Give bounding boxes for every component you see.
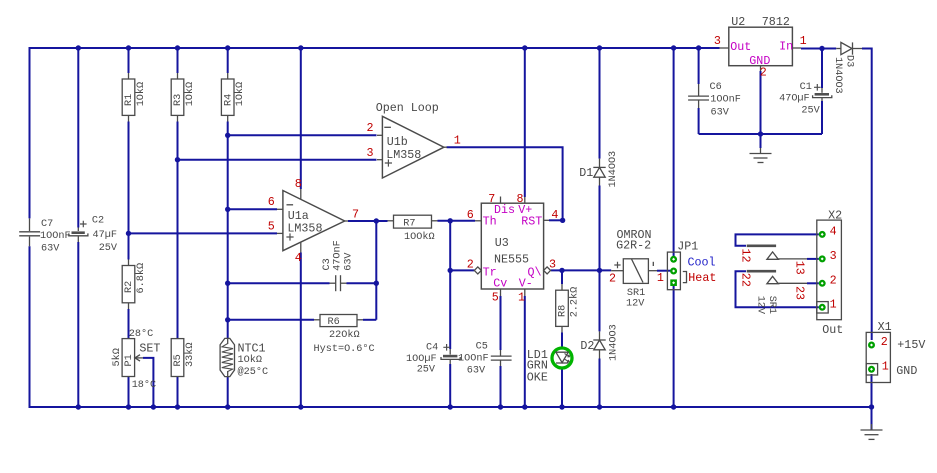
wire U1b pin3 net — [178, 159, 377, 161]
svg-text:6: 6 — [467, 208, 474, 222]
svg-text:3: 3 — [830, 249, 837, 263]
svg-text:13: 13 — [793, 261, 807, 275]
svg-text:X2: X2 — [828, 208, 842, 222]
svg-text:5: 5 — [268, 220, 275, 234]
svg-text:C3: C3 — [322, 258, 333, 270]
capacitor C3 — [322, 240, 355, 291]
svg-text:63V: 63V — [344, 252, 355, 271]
thermistor NTC1 — [220, 338, 268, 378]
wire U1a pin6 net — [228, 208, 277, 210]
wire R6 feedback net — [228, 319, 377, 321]
connector X1 — [866, 320, 891, 383]
svg-text:1OkΩ: 1OkΩ — [234, 82, 246, 106]
svg-text:In: In — [779, 40, 793, 54]
svg-text:1: 1 — [800, 34, 807, 48]
svg-text:R5: R5 — [173, 354, 184, 366]
svg-text:C7: C7 — [41, 219, 53, 230]
svg-text:Out: Out — [822, 323, 843, 337]
svg-text:@25°C: @25°C — [238, 366, 269, 378]
diode D2 — [580, 324, 619, 361]
svg-text:JP1: JP1 — [677, 239, 698, 253]
svg-text:RST: RST — [521, 215, 542, 229]
wire +12V top rail — [30, 47, 720, 49]
wire C3 feedback net — [228, 282, 377, 284]
svg-text:12: 12 — [739, 249, 753, 263]
svg-text:3: 3 — [714, 34, 721, 48]
potentiometer P1 — [111, 339, 143, 377]
wire contact A output to X2 pin3 — [807, 258, 819, 260]
svg-text:LM358: LM358 — [287, 222, 322, 236]
svg-text:1: 1 — [882, 359, 889, 373]
svg-text:SR1: SR1 — [766, 296, 777, 314]
svg-text:1N4OO3: 1N4OO3 — [608, 324, 619, 361]
wire U1b output to RST — [447, 147, 563, 220]
svg-text:R2: R2 — [124, 281, 135, 293]
svg-text:18°C: 18°C — [132, 379, 156, 391]
svg-text:U3: U3 — [495, 236, 509, 250]
LED LD1 — [527, 348, 572, 385]
capacitor C6 — [688, 82, 741, 119]
ground symbol bottom right — [861, 407, 883, 439]
voltage regulator U2 7812 — [720, 15, 802, 71]
svg-text:25V: 25V — [99, 243, 118, 254]
svg-text:2: 2 — [830, 273, 837, 287]
resistor R8 — [556, 284, 581, 333]
wire C6 branch — [698, 48, 700, 134]
svg-text:2: 2 — [467, 257, 474, 271]
wire Th to Tr and C4 branch — [450, 221, 474, 407]
svg-text:NE555: NE555 — [494, 253, 529, 267]
junction dots bottom rail — [76, 404, 875, 409]
svg-text:23: 23 — [793, 286, 807, 300]
wire R3 divider branch — [177, 48, 179, 407]
svg-text:1OOnF: 1OOnF — [710, 95, 741, 106]
svg-text:1OOnF: 1OOnF — [40, 231, 71, 242]
svg-text:Out: Out — [730, 40, 751, 54]
svg-text:R3: R3 — [173, 94, 184, 106]
relay contact A blade — [739, 245, 777, 263]
svg-text:R8: R8 — [558, 305, 569, 317]
svg-text:22OkΩ: 22OkΩ — [329, 329, 360, 341]
junction dots top rail — [76, 45, 825, 51]
resistor R1 — [122, 73, 147, 122]
relay contact A fixed point — [767, 252, 807, 275]
svg-text:Th: Th — [483, 215, 497, 229]
svg-text:7: 7 — [352, 207, 359, 221]
svg-text:4: 4 — [551, 208, 558, 222]
svg-text:3: 3 — [549, 257, 556, 271]
svg-text:GND: GND — [896, 364, 917, 378]
op-amp U1b — [377, 116, 447, 178]
relay contact B fixed point — [767, 276, 807, 300]
svg-text:5kΩ: 5kΩ — [111, 348, 123, 366]
svg-text:OKE: OKE — [527, 371, 548, 385]
svg-text:28°C: 28°C — [129, 328, 153, 340]
svg-text:1OOnF: 1OOnF — [458, 353, 489, 364]
svg-text:12V: 12V — [626, 299, 645, 310]
svg-text:12V: 12V — [755, 296, 766, 315]
timer U3 NE555 — [474, 197, 550, 297]
svg-text:4: 4 — [295, 251, 302, 265]
svg-text:2: 2 — [760, 65, 767, 79]
wire relay contact A to X2 pin4 — [736, 234, 819, 245]
resistor R6 — [314, 315, 363, 342]
wire contact B output to X2 pin2 — [807, 282, 819, 284]
svg-text:1: 1 — [657, 271, 664, 285]
wire Q out net — [551, 269, 611, 271]
relay contact B blade — [739, 270, 777, 287]
resistor R2 — [122, 260, 147, 310]
svg-text:R4: R4 — [223, 94, 234, 106]
svg-text:1OkΩ: 1OkΩ — [184, 82, 196, 106]
svg-text:1: 1 — [830, 297, 837, 311]
diode D1 — [579, 151, 619, 188]
svg-text:3: 3 — [367, 146, 374, 160]
connector X2 — [817, 208, 843, 337]
svg-text:R6: R6 — [328, 317, 340, 328]
svg-text:1OkΩ: 1OkΩ — [135, 82, 147, 106]
svg-text:22: 22 — [739, 273, 753, 287]
svg-text:C6: C6 — [710, 82, 722, 93]
svg-text:8: 8 — [517, 192, 524, 206]
svg-text:P1: P1 — [124, 354, 135, 366]
svg-text:Open Loop: Open Loop — [376, 101, 439, 115]
wire relay contact B to X2 pin1 — [736, 271, 819, 307]
svg-text:C5: C5 — [476, 341, 488, 352]
wire U1a pin5 net — [129, 232, 278, 234]
wire C1 branch — [821, 49, 823, 135]
svg-text:47OµF: 47OµF — [779, 94, 810, 105]
pin header JP1 — [667, 239, 698, 289]
svg-text:63V: 63V — [711, 108, 730, 119]
svg-text:SR1: SR1 — [627, 288, 645, 299]
svg-text:X1: X1 — [878, 320, 892, 334]
wire D2 branch — [599, 270, 601, 407]
svg-text:7: 7 — [488, 192, 495, 206]
svg-text:Dis: Dis — [494, 203, 515, 217]
resistor R7 — [388, 215, 438, 243]
svg-text:2: 2 — [609, 272, 616, 286]
wire R4 NTC branch — [227, 48, 229, 407]
wire U1b pin2 net — [228, 134, 377, 136]
svg-text:Cool: Cool — [688, 256, 716, 270]
svg-text:D2: D2 — [580, 339, 594, 353]
svg-text:25V: 25V — [801, 105, 820, 116]
wire GND bottom rail — [30, 406, 872, 408]
svg-text:2: 2 — [367, 121, 374, 135]
svg-text:4: 4 — [830, 225, 837, 239]
ground symbol under U2 — [750, 134, 772, 163]
svg-text:LM358: LM358 — [386, 148, 421, 162]
wire JP1 top branch — [673, 48, 675, 257]
svg-text:6: 6 — [268, 195, 275, 209]
svg-text:SET: SET — [139, 342, 160, 356]
jumper bracket Heat — [683, 272, 687, 283]
resistor R4 — [221, 73, 246, 122]
wire U1a output to R7 — [348, 221, 388, 320]
relay coil SR1 — [611, 228, 657, 310]
svg-text:2: 2 — [881, 335, 888, 349]
wire relay to JP1 — [657, 270, 671, 272]
svg-text:NTC1: NTC1 — [238, 342, 266, 356]
capacitor C2 polarized — [69, 215, 118, 254]
capacitor C1 polarized — [779, 82, 832, 116]
svg-text:D1: D1 — [579, 166, 593, 180]
svg-text:7812: 7812 — [762, 15, 790, 29]
wire JP1 bottom to GND — [673, 286, 675, 408]
wire R8 LED branch — [561, 270, 563, 407]
svg-text:R1: R1 — [124, 94, 135, 106]
svg-text:6.8kΩ: 6.8kΩ — [135, 263, 147, 294]
svg-text:C1: C1 — [800, 82, 812, 93]
diode D3 — [832, 42, 862, 93]
svg-text:Hyst=O.6°C: Hyst=O.6°C — [314, 343, 375, 355]
svg-text:Cv: Cv — [493, 277, 507, 291]
svg-text:5: 5 — [492, 290, 499, 304]
svg-text:8: 8 — [295, 177, 302, 191]
wire analog ground run under U2 — [699, 134, 822, 140]
svg-text:1N4OO3: 1N4OO3 — [608, 151, 619, 188]
svg-text:1OOµF: 1OOµF — [406, 354, 437, 365]
wire NE555 V- branch — [524, 296, 526, 407]
svg-text:U2: U2 — [731, 15, 745, 29]
svg-text:1: 1 — [518, 290, 525, 304]
wire R1 divider branch — [128, 48, 130, 407]
wire R7 to NE555 Th — [438, 220, 482, 222]
svg-text:R7: R7 — [403, 219, 415, 230]
svg-text:V-: V- — [519, 277, 533, 291]
svg-text:1OkΩ: 1OkΩ — [238, 354, 262, 366]
svg-text:63V: 63V — [41, 243, 60, 254]
capacitor C7 — [19, 218, 70, 254]
capacitor C5 — [458, 341, 512, 376]
svg-text:33kΩ: 33kΩ — [184, 343, 196, 367]
resistor R3 — [171, 73, 196, 122]
wire U2 GND pin stub — [760, 71, 762, 134]
wire NE555 V+ branch — [524, 48, 526, 197]
wire X1 GND pin to rail — [871, 374, 873, 430]
wire NE555 Cv to C5 — [500, 296, 502, 407]
wire D3 to X1 right rail — [862, 49, 872, 341]
svg-text:1OOkΩ: 1OOkΩ — [404, 231, 435, 243]
wire U1a power pin4 branch — [300, 253, 302, 408]
svg-text:+15V: +15V — [897, 338, 925, 352]
svg-text:25V: 25V — [417, 365, 436, 376]
svg-text:2.2kΩ: 2.2kΩ — [568, 287, 580, 318]
svg-text:63V: 63V — [467, 365, 486, 376]
svg-text:C2: C2 — [92, 215, 104, 226]
wire U2 In to D3 — [801, 48, 836, 50]
wire U1a power pin8 branch — [300, 48, 302, 189]
svg-text:C4: C4 — [426, 343, 438, 354]
op-amp U1a — [277, 189, 348, 253]
wire C2 branch — [77, 48, 79, 407]
svg-text:47OnF: 47OnF — [333, 240, 344, 271]
svg-text:U1b: U1b — [387, 135, 408, 149]
svg-text:Heat: Heat — [688, 271, 716, 285]
junction dots mid nets — [126, 131, 763, 322]
capacitor C4 polarized — [406, 343, 460, 376]
svg-text:1: 1 — [454, 134, 461, 148]
svg-text:D3: D3 — [843, 55, 854, 67]
wire P1 wiper to GND — [143, 358, 153, 407]
resistor R5 — [171, 339, 196, 377]
wire left rail C7 branch — [29, 47, 31, 408]
wire D1 branch — [599, 48, 601, 270]
svg-text:1N4OO3: 1N4OO3 — [832, 57, 843, 94]
svg-text:47µF: 47µF — [93, 230, 117, 241]
svg-text:G2R-2: G2R-2 — [616, 238, 651, 252]
